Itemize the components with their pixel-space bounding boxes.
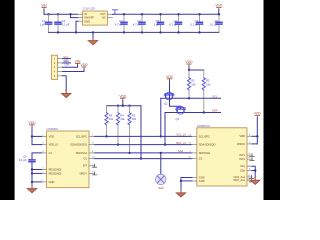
capacitor C8 [210, 13, 222, 32]
svg-text:4.7 µF: 4.7 µF [115, 22, 123, 26]
wire SCx/SDx to ground [252, 166, 256, 177]
svg-text:R3: R3 [109, 113, 113, 117]
svg-text:C3: C3 [119, 19, 123, 23]
svg-text:VDD: VDD [81, 63, 89, 67]
capacitor C3 [115, 13, 127, 34]
svg-text:R5: R5 [132, 113, 136, 117]
svg-text:R2: R2 [206, 79, 210, 83]
svg-text:0.1 µF: 0.1 µF [62, 22, 70, 26]
wire gate net VDD to Q1/Q2 gates [170, 81, 181, 108]
resistor R3 10k [105, 106, 114, 138]
no-connect ticks INT / DRDY [93, 164, 97, 167]
no-connect ticks OCS_Aux/SDO_Aux [249, 175, 253, 178]
wire R1-R2 top link [189, 69, 204, 71]
ground (LIS3MDL) [31, 186, 33, 189]
svg-text:SDO/SA1: SDO/SA1 [76, 151, 88, 155]
svg-text:VDD_IO: VDD_IO [49, 143, 59, 147]
svg-text:10k: 10k [109, 117, 114, 121]
svg-text:VDD: VDD [119, 94, 127, 98]
ground (SCx/SDx) [254, 177, 256, 180]
svg-text:C8: C8 [214, 19, 218, 23]
pin stubs left of LSM6DSO [192, 136, 197, 181]
svg-text:INT2: INT2 [239, 157, 245, 161]
svg-text:GND: GND [199, 179, 205, 183]
svg-text:SDA_LV: SDA_LV [176, 141, 186, 145]
pin numbers LSM6DSO [188, 134, 251, 180]
svg-text:SCL: SCL [212, 94, 218, 98]
svg-text:CS: CS [83, 156, 87, 160]
svg-text:0.1 µF: 0.1 µF [169, 22, 177, 26]
pin stubs left of LIS3MDL [42, 136, 47, 182]
ground (LSM6DSO) [180, 190, 182, 193]
svg-text:INT1: INT1 [239, 153, 245, 157]
svg-text:SDx: SDx [240, 168, 246, 172]
supply VDD (top right) [215, 4, 223, 15]
svg-text:SA0: SA0 [178, 149, 184, 153]
wire GND pin [32, 181, 42, 183]
wire pin5 to ground [63, 76, 67, 91]
wire: LDO GND to bottom rail [76, 21, 78, 32]
capacitor C6 [169, 13, 181, 34]
wire: top rail VIN to LDO IN [44, 13, 78, 15]
wire: jog to ON/OFF pin [71, 14, 79, 17]
svg-text:SCL_LV: SCL_LV [176, 133, 186, 137]
svg-text:RES(GND): RES(GND) [49, 171, 62, 175]
regulator U1 3.3V LDO [78, 6, 112, 25]
pin numbers LIS3MDL [42, 135, 95, 183]
svg-text:INT: INT [83, 164, 88, 168]
svg-text:LIS3MDL: LIS3MDL [47, 127, 59, 131]
svg-text:SDA: SDA [64, 64, 69, 67]
svg-text:10k: 10k [206, 82, 211, 86]
IC U2 LSM6DSO [197, 124, 247, 186]
capacitor C5 [154, 13, 164, 34]
svg-text:RES(GND): RES(GND) [49, 167, 62, 171]
svg-text:SDA: SDA [212, 109, 218, 113]
wire: output top rail [112, 13, 219, 15]
resistor R4 10k [116, 106, 125, 146]
supply VIN (top left) [41, 3, 47, 14]
svg-text:GND: GND [49, 180, 55, 184]
svg-text:NC: NC [102, 16, 106, 20]
svg-text:VDD: VDD [49, 134, 55, 138]
wire SDA_LV drop [164, 113, 166, 146]
wire SA0 net [94, 152, 192, 154]
svg-text:SCL/SPC: SCL/SPC [199, 134, 210, 138]
capacitor C1 [40, 14, 52, 32]
jumper pad SA0 [156, 152, 166, 190]
supply VDD (LSM6DSO right) [254, 112, 262, 144]
svg-text:VIN: VIN [41, 3, 47, 7]
svg-text:CS: CS [199, 157, 203, 161]
wire SCL_LV net [94, 135, 192, 137]
svg-text:C6: C6 [174, 19, 178, 23]
wire pin2 SDA [63, 59, 71, 66]
svg-text:LSM6DSO: LSM6DSO [197, 124, 211, 128]
capacitor C9 [19, 154, 35, 162]
svg-text:C5: C5 [156, 19, 160, 23]
svg-text:1 µF: 1 µF [154, 22, 160, 26]
svg-text:VDD: VDD [254, 112, 262, 116]
resistor R2 10k [202, 70, 211, 114]
svg-text:SDA/SDI/SDO: SDA/SDI/SDO [199, 143, 216, 147]
svg-text:C1: C1 [42, 19, 46, 23]
ground (connector) [65, 90, 67, 93]
pin stubs right of LSM6DSO [247, 136, 252, 180]
svg-text:1 µF: 1 µF [40, 22, 46, 26]
supply VDD (gate) [166, 75, 174, 81]
wire SDA_LV net [94, 144, 192, 146]
svg-text:OUT: OUT [100, 12, 106, 16]
wire SDA line [165, 112, 221, 114]
wire SCL line [161, 97, 221, 99]
wire VDD pin [32, 135, 42, 137]
svg-text:3.3V LDO: 3.3V LDO [83, 6, 96, 10]
wire VDD pin [252, 135, 257, 137]
svg-text:VDD: VDD [166, 75, 174, 79]
svg-text:GND: GND [84, 19, 90, 23]
wire C1 pin to C9 [32, 153, 42, 159]
transistor Q1 [164, 92, 174, 105]
capacitor C2 [55, 14, 70, 32]
wire GND pins to ground [180, 178, 192, 191]
svg-text:SDA: SDA [63, 59, 69, 63]
junction dots top rail [47, 13, 49, 15]
svg-text:VDD: VDD [186, 60, 194, 64]
svg-text:C1: C1 [49, 151, 53, 155]
svg-text:IN: IN [84, 12, 87, 16]
svg-text:SA0: SA0 [158, 186, 164, 190]
svg-text:C9: C9 [23, 154, 27, 158]
wire VDD_IO pin [32, 144, 42, 146]
supply VDD (connector pin4) [63, 63, 88, 72]
wire VDDIO pin [252, 143, 257, 145]
svg-text:DRDY: DRDY [80, 171, 88, 175]
svg-text:Q2: Q2 [176, 117, 180, 121]
svg-text:VDD: VDD [215, 4, 223, 8]
capacitor C4 [133, 13, 145, 34]
wire VDD bus [107, 105, 142, 107]
no-connect stub on NC pin [112, 10, 117, 15]
wire pin3 to VIN [63, 59, 81, 67]
wire C9 to gnd vertical [31, 163, 33, 186]
svg-text:SDO_Aux: SDO_Aux [233, 178, 245, 182]
wire SCL_LV drop [160, 98, 162, 137]
svg-text:R1: R1 [191, 79, 195, 83]
resistor R1 10k [187, 70, 196, 100]
svg-text:C4: C4 [137, 19, 141, 23]
pin stubs right of LIS3MDL [89, 136, 95, 173]
svg-text:10k: 10k [120, 117, 125, 121]
supply VDD (LIS3MDL) [29, 121, 37, 145]
resistor R5 10k [128, 106, 137, 154]
svg-text:VDDIO: VDDIO [237, 142, 245, 146]
connector J1 [51, 55, 62, 79]
svg-text:4.7 µF: 4.7 µF [133, 22, 141, 26]
no-connect ticks INT1/INT2 [250, 154, 254, 157]
svg-text:SCL/SPC: SCL/SPC [76, 134, 87, 138]
svg-text:VDD: VDD [29, 121, 37, 125]
svg-text:SDO/SA0: SDO/SA0 [199, 151, 211, 155]
IC U1 LIS3MDL [47, 127, 89, 188]
svg-text:OCS_Aux: OCS_Aux [233, 175, 245, 179]
svg-text:10k: 10k [132, 117, 137, 121]
svg-text:GND: GND [199, 175, 205, 179]
wire CS net [94, 158, 192, 160]
transistor Q2 [176, 106, 186, 121]
left black border bar [0, 0, 15, 200]
svg-text:0.1 µF: 0.1 µF [19, 158, 27, 162]
svg-text:0.1 µF: 0.1 µF [190, 22, 198, 26]
svg-text:ON/OFF: ON/OFF [84, 16, 94, 20]
supply VDD (mid) [119, 94, 127, 105]
svg-text:C2: C2 [62, 19, 66, 23]
right black border bar [264, 0, 281, 200]
svg-text:C7: C7 [195, 19, 199, 23]
svg-text:SDA/SDI/SDO: SDA/SDI/SDO [70, 143, 87, 147]
svg-text:SCx: SCx [240, 164, 246, 168]
supply VDD (shifter top) [186, 60, 194, 71]
wire CS pull-up [140, 106, 142, 160]
svg-text:SCL: SCL [63, 55, 69, 59]
capacitor C7 [190, 13, 202, 34]
ground (under LDO) [88, 32, 97, 44]
svg-text:10k: 10k [191, 82, 196, 86]
svg-text:Q1: Q1 [164, 101, 168, 105]
svg-text:VDD: VDD [240, 134, 246, 138]
svg-text:0.1 µF: 0.1 µF [210, 22, 218, 26]
wire pin1 SCL [63, 55, 71, 63]
svg-text:R4: R4 [120, 113, 124, 117]
wire: bottom rail [49, 31, 219, 33]
wire RES pins [32, 169, 42, 171]
